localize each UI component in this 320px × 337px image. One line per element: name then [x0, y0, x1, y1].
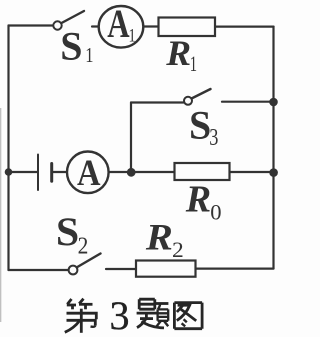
- svg-text:R: R: [145, 218, 173, 258]
- svg-text:A: A: [107, 1, 129, 46]
- svg-text:1: 1: [129, 25, 136, 46]
- svg-text:S: S: [56, 209, 79, 254]
- svg-text:3: 3: [110, 293, 130, 337]
- svg-text:3: 3: [209, 124, 218, 151]
- svg-text:R: R: [165, 34, 191, 73]
- svg-text:0: 0: [210, 200, 221, 225]
- svg-text:S: S: [189, 102, 211, 147]
- svg-text:1: 1: [190, 52, 197, 77]
- svg-text:A: A: [77, 152, 101, 194]
- svg-text:S: S: [60, 24, 82, 69]
- svg-text:1: 1: [85, 44, 93, 67]
- svg-text:2: 2: [78, 232, 89, 259]
- svg-text:2: 2: [172, 238, 184, 262]
- svg-text:R: R: [185, 178, 211, 220]
